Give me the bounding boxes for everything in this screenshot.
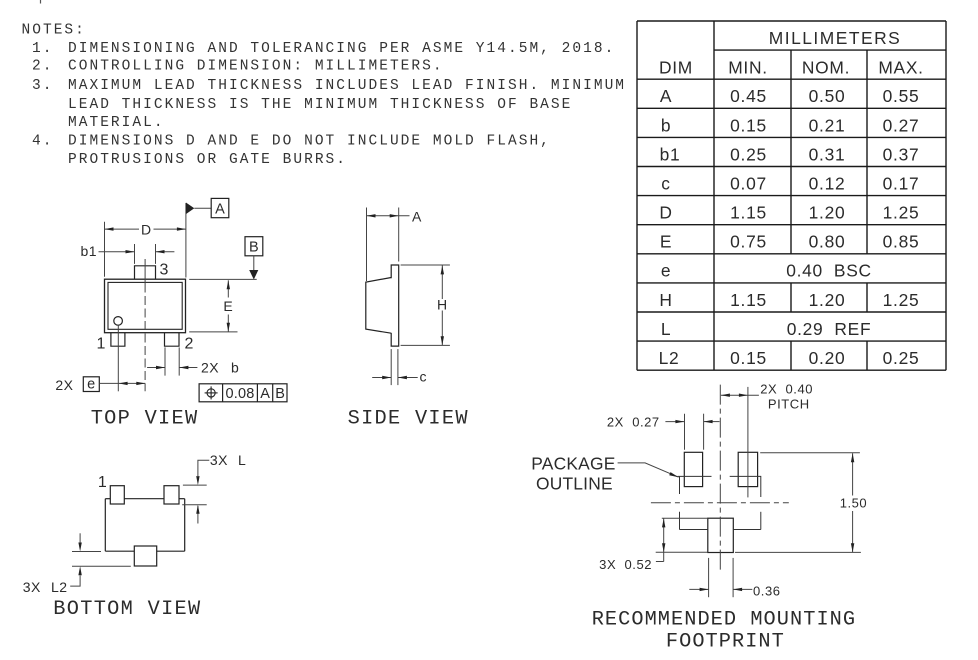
dimension b1 extension lines [134,244,136,264]
dimension 1.50 extension top [760,452,860,454]
L lower arrow [197,506,199,524]
position symbol [207,389,215,397]
svg-text:RECOMMENDED MOUNTING: RECOMMENDED MOUNTING [592,609,856,632]
dimension 2X b lines [147,367,165,369]
svg-text:0.15: 0.15 [730,115,767,135]
svg-text:0.55: 0.55 [883,86,920,106]
datum A leader [194,207,211,209]
svg-text:DIM: DIM [659,57,693,77]
svg-text:B: B [275,386,285,402]
dimension A line [367,215,410,217]
bottom view pad top-right [164,486,179,504]
svg-text:MAX.: MAX. [878,57,923,77]
svg-text:0.25: 0.25 [883,348,920,368]
package outline leader [618,463,679,477]
svg-text:1.20: 1.20 [809,290,846,310]
svg-text:PITCH: PITCH [768,397,810,412]
svg-text:H: H [659,290,672,310]
svg-text:PROTRUSIONS OR GATE BURRS.: PROTRUSIONS OR GATE BURRS. [68,152,347,168]
svg-text:2: 2 [184,336,193,353]
pin1 centerline [117,325,119,391]
svg-text:A: A [260,386,270,402]
dimension A extension right [398,208,400,262]
package outline left edge [679,476,681,494]
svg-text:OUTLINE: OUTLINE [536,473,613,493]
svg-text:2X: 2X [201,359,219,375]
side view body trapezoid [366,278,391,334]
svg-text:0.75: 0.75 [730,232,767,252]
svg-text:1.50: 1.50 [840,496,868,511]
svg-text:L: L [238,452,246,468]
top view pin1 [111,333,125,347]
svg-text:0.25: 0.25 [730,144,767,164]
dimension 0.36 extension lines [708,558,710,597]
svg-text:MAXIMUM LEAD THICKNESS INCLUDE: MAXIMUM LEAD THICKNESS INCLUDES LEAD FIN… [68,78,626,94]
horizontal centerline [651,502,789,504]
dimension 3X 0.52 line [663,518,665,561]
L extension lines [183,484,207,486]
svg-text:0.45: 0.45 [730,86,767,106]
bottom view body outline [105,499,184,552]
svg-text:D: D [659,203,672,223]
svg-text:2X 0.27: 2X 0.27 [607,415,660,430]
svg-text:L: L [661,319,671,339]
svg-text:0.12: 0.12 [809,174,846,194]
svg-text:E: E [660,232,672,252]
svg-text:H: H [437,297,448,313]
top view body inner [108,282,182,329]
svg-text:1.15: 1.15 [730,290,767,310]
dimension b1 lines [99,251,135,253]
svg-text:0.20: 0.20 [809,348,846,368]
svg-text:e: e [87,377,95,393]
svg-text:MILLIMETERS: MILLIMETERS [769,28,901,48]
package outline right edge [760,476,762,497]
svg-text:0.31: 0.31 [809,144,846,164]
dimension H line [441,265,443,299]
svg-text:L2: L2 [51,579,68,595]
svg-text:1.25: 1.25 [883,290,920,310]
package outline top edge [678,475,712,477]
svg-text:DIMENSIONING AND TOLERANCING P: DIMENSIONING AND TOLERANCING PER ASME Y1… [68,41,615,57]
svg-text:DIMENSIONS D AND E DO NOT INCL: DIMENSIONS D AND E DO NOT INCLUDE MOLD F… [68,134,551,150]
svg-text:MATERIAL.: MATERIAL. [68,115,165,131]
body bottom edge extension right [189,331,237,333]
dimension 3X L leader [198,460,209,476]
svg-text:A: A [412,208,422,224]
svg-text:MIN.: MIN. [728,57,768,77]
svg-text:0.85: 0.85 [883,232,920,252]
svg-text:1: 1 [98,474,107,491]
svg-text:1.20: 1.20 [809,203,846,223]
svg-text:PACKAGE: PACKAGE [531,453,615,473]
svg-text:2X: 2X [55,377,73,393]
svg-text:c: c [661,174,670,194]
package centerline dashed [144,284,146,392]
dimension H extension bottom [401,344,450,346]
right pad centerline [747,387,749,498]
svg-text:L2: L2 [659,348,680,368]
svg-text:NOTES:: NOTES: [22,23,86,39]
svg-text:0.36: 0.36 [753,583,781,598]
svg-text:0.07: 0.07 [730,174,767,194]
svg-text:0.37: 0.37 [883,144,920,164]
svg-text:1.15: 1.15 [730,203,767,223]
svg-text:b1: b1 [660,144,681,164]
svg-text:0.40 BSC: 0.40 BSC [786,261,872,281]
svg-text:e: e [661,261,671,281]
svg-text:0.17: 0.17 [883,174,920,194]
svg-text:3: 3 [159,262,168,279]
svg-text:0.21: 0.21 [809,115,846,135]
datum A triangle [186,203,194,215]
svg-text:3.: 3. [32,78,53,94]
L2 extension lines [72,551,101,553]
svg-text:0.50: 0.50 [809,86,846,106]
footprint pad right [738,452,757,486]
side view lead strip [391,265,399,346]
dimension 2X b extension lines [164,347,166,375]
svg-text:0.15: 0.15 [730,348,767,368]
dimension 0.36 lines [689,588,708,590]
svg-text:0.80: 0.80 [809,232,846,252]
package outline bottom edge [680,529,708,531]
svg-text:b: b [231,359,239,375]
feature control frame [199,384,287,402]
svg-text:TOP VIEW: TOP VIEW [91,408,199,431]
svg-text:2.: 2. [32,59,53,75]
svg-text:NOM.: NOM. [802,57,850,77]
datum B stem [253,256,255,270]
lead thickness lines [390,349,392,385]
dimension 3X L2 upper arrow [79,533,81,542]
svg-text:3X 0.52: 3X 0.52 [599,557,652,572]
svg-text:SIDE VIEW: SIDE VIEW [348,408,469,431]
dimension c lines [372,377,391,379]
dimension H extension top [401,264,450,266]
body top edge extension right [189,278,257,280]
e box [83,377,99,392]
package centerline solid through tab [144,259,146,284]
svg-text:E: E [223,298,233,314]
svg-text:A: A [660,86,672,106]
svg-text:LEAD THICKNESS IS THE MINIMUM: LEAD THICKNESS IS THE MINIMUM THICKNESS … [68,97,572,113]
svg-text:3X: 3X [210,452,228,468]
svg-text:2X 0.40: 2X 0.40 [760,381,813,396]
dimension D extension left [104,222,106,277]
datum B triangle [249,270,258,280]
datum B box [245,237,263,256]
top view pin2 [165,333,180,347]
dimension E line [227,280,229,297]
svg-text:B: B [249,240,259,256]
svg-text:D: D [141,221,152,237]
svg-text:0.27: 0.27 [883,115,920,135]
svg-text:c: c [420,369,428,385]
svg-text:b1: b1 [81,243,98,259]
svg-text:1.: 1. [32,41,53,57]
svg-text:A: A [215,201,225,217]
svg-text:1.25: 1.25 [883,203,920,223]
pad bottom extension left [656,551,708,553]
dimension A extension left [366,208,368,282]
svg-text:CONTROLLING DIMENSION: MILLIME: CONTROLLING DIMENSION: MILLIMETERS. [68,59,444,75]
svg-text:0.08: 0.08 [225,386,254,402]
dimension table grid [637,21,946,370]
top view tab pin3 [135,266,156,279]
L2 lower arrow and leader [70,575,80,586]
footprint pad bottom [708,518,734,552]
pin1 index circle [114,317,123,326]
footprint pad left [684,452,702,486]
svg-text:4.: 4. [32,134,53,150]
dimension 1.50 line [852,453,854,495]
datum A box [211,198,229,217]
dimension 3X 0.52 extension top [662,517,708,519]
stray top tick [40,0,42,4]
vertical centerline [719,385,721,573]
svg-text:0.29 REF: 0.29 REF [787,319,872,339]
svg-text:FOOTPRINT: FOOTPRINT [666,631,785,654]
svg-text:3X: 3X [23,579,41,595]
dimension D line [105,228,140,230]
dimension 1.50 extension bottom [735,551,861,553]
svg-text:1: 1 [97,336,106,353]
svg-text:BOTTOM VIEW: BOTTOM VIEW [53,598,201,621]
top view body outer [105,279,186,333]
dimension D right vertical / datum A plane [185,203,187,278]
dimension e line [99,382,145,384]
bottom view pad top-left [110,486,124,504]
svg-text:b: b [661,115,671,135]
dimension 3X 0.52 leader [656,561,664,563]
bottom view pad bottom-center [134,546,156,566]
